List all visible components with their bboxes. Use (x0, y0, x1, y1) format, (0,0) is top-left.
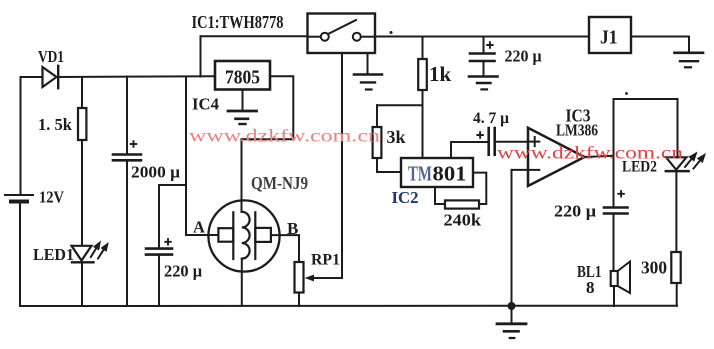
svg-text:IC4: IC4 (192, 95, 219, 114)
svg-text:IC2: IC2 (392, 188, 419, 207)
svg-text:QM-NJ9: QM-NJ9 (251, 173, 308, 193)
svg-text:240k: 240k (444, 211, 482, 230)
svg-text:www.dzkfw.com.cn: www.dzkfw.com.cn (497, 143, 683, 163)
svg-text:300: 300 (641, 258, 667, 278)
svg-text:J1: J1 (600, 27, 618, 49)
svg-text:2000 μ: 2000 μ (131, 163, 181, 182)
svg-text:12V: 12V (39, 188, 65, 207)
svg-text:TM: TM (408, 162, 432, 186)
svg-text:1. 5k: 1. 5k (38, 115, 73, 134)
svg-text:A: A (193, 218, 205, 237)
svg-text:801: 801 (433, 162, 467, 186)
svg-text:7805: 7805 (225, 67, 260, 89)
svg-text:LED1: LED1 (33, 245, 74, 264)
svg-text:8: 8 (586, 278, 595, 297)
svg-text:LM386: LM386 (556, 121, 598, 140)
svg-text:220 μ: 220 μ (505, 47, 543, 66)
svg-text:IC1:TWH8778: IC1:TWH8778 (192, 12, 284, 32)
svg-text:1k: 1k (429, 62, 452, 86)
svg-text:VD1: VD1 (38, 47, 64, 66)
svg-text:B: B (287, 219, 298, 238)
svg-text:RP1: RP1 (311, 252, 340, 269)
svg-text:220 μ: 220 μ (164, 262, 203, 281)
svg-text:4. 7 μ: 4. 7 μ (473, 110, 509, 127)
svg-text:3k: 3k (387, 127, 406, 147)
svg-text:220 μ: 220 μ (554, 202, 597, 221)
svg-text:www.dzkfw.com.cn: www.dzkfw.com.cn (189, 126, 380, 146)
